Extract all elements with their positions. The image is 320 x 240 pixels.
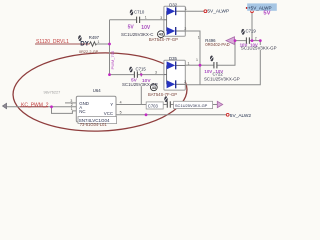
svg-text:0R22-2-GP: 0R22-2-GP [79, 50, 99, 54]
svg-text:1: 1 [198, 35, 200, 39]
svg-text:BAT54S-7F-GP: BAT54S-7F-GP [148, 92, 177, 97]
svg-text:SC1U25V3KX-GP: SC1U25V3KX-GP [204, 76, 240, 81]
svg-text:SN74LVC1G04: SN74LVC1G04 [79, 118, 110, 123]
svg-text:3: 3 [155, 71, 157, 75]
svg-text:KC_PWM_2: KC_PWM_2 [21, 102, 49, 108]
svg-text:VCC: VCC [104, 111, 113, 116]
svg-text:3: 3 [160, 16, 162, 20]
svg-text:10V: 10V [204, 69, 212, 74]
svg-text:5V: 5V [131, 78, 138, 84]
svg-text:0R0402-PAD: 0R0402-PAD [205, 42, 229, 47]
svg-text:C703: C703 [148, 103, 159, 108]
svg-text:1: 1 [188, 61, 190, 65]
svg-text:10V: 10V [215, 69, 223, 74]
svg-text:2: 2 [184, 80, 186, 84]
svg-text:5V: 5V [263, 11, 270, 17]
svg-text:S1120_DRVL1: S1120_DRVL1 [36, 39, 69, 45]
svg-text:1: 1 [145, 16, 147, 20]
svg-text:1: 1 [185, 7, 187, 11]
svg-text:SC1U25V3KX-GP: SC1U25V3KX-GP [122, 82, 158, 87]
svg-text:2: 2 [255, 36, 257, 40]
svg-text:5V_ALWP: 5V_ALWP [207, 8, 229, 14]
svg-text:BAT54S-7F-GP: BAT54S-7F-GP [149, 37, 178, 42]
svg-text:5V: 5V [128, 24, 135, 30]
svg-text:2: 2 [184, 27, 186, 31]
svg-text:43: 43 [159, 32, 164, 37]
svg-text:U64: U64 [93, 88, 101, 93]
svg-text:+5V_ALWP: +5V_ALWP [248, 5, 272, 10]
svg-text:D35: D35 [169, 56, 177, 61]
svg-text:98v76227: 98v76227 [44, 91, 61, 95]
svg-text:PWM_705: PWM_705 [110, 50, 115, 69]
svg-text:10V: 10V [142, 78, 151, 84]
svg-text:4: 4 [120, 101, 122, 105]
svg-text:1: 1 [196, 58, 198, 62]
svg-text:1: 1 [140, 71, 142, 75]
svg-text:5V_ALW2: 5V_ALW2 [230, 113, 252, 119]
svg-text:5: 5 [120, 111, 122, 115]
svg-text:D32: D32 [169, 2, 177, 7]
svg-text:1: 1 [98, 40, 100, 44]
svg-text:10V: 10V [141, 25, 151, 31]
svg-text:C719: C719 [246, 29, 257, 34]
svg-text:1: 1 [71, 107, 73, 111]
svg-text:SC1U25V3KX-C: SC1U25V3KX-C [121, 32, 153, 37]
svg-text:Y: Y [110, 102, 113, 107]
svg-text:10V: 10V [250, 42, 258, 47]
svg-text:NC: NC [79, 109, 85, 114]
svg-text:DY: DY [80, 41, 89, 48]
svg-text:SC1U25V3KX-GP: SC1U25V3KX-GP [175, 103, 208, 108]
svg-text:10V: 10V [240, 42, 248, 47]
svg-text:C710: C710 [134, 10, 145, 15]
